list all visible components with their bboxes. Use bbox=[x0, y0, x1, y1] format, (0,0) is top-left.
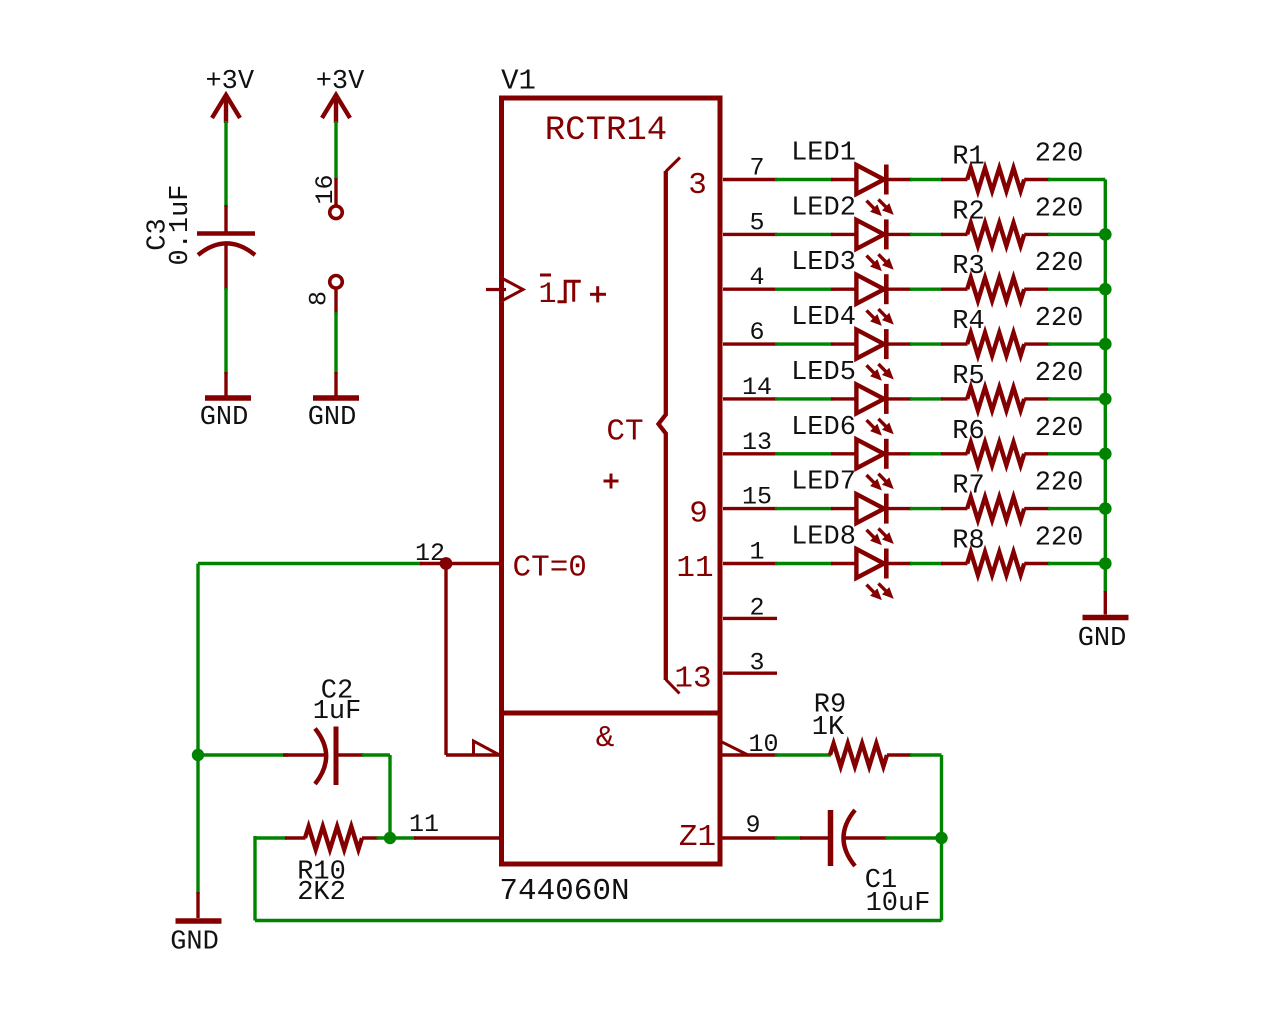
svg-text:LED1: LED1 bbox=[791, 139, 856, 169]
svg-text:16: 16 bbox=[311, 174, 340, 204]
svg-text:1: 1 bbox=[749, 538, 764, 567]
svg-text:+3V: +3V bbox=[205, 67, 254, 97]
svg-text:LED5: LED5 bbox=[791, 358, 856, 388]
resistor R3 bbox=[967, 278, 1024, 301]
svg-text:&: & bbox=[596, 721, 615, 756]
IC output pin 15 bbox=[723, 507, 777, 510]
LED LED2 bbox=[856, 220, 884, 249]
wire R2 to GND bus bbox=[1048, 233, 1105, 236]
svg-text:R6: R6 bbox=[952, 417, 984, 447]
wire LED2 to R2 bbox=[910, 233, 943, 236]
svg-text:0.1uF: 0.1uF bbox=[166, 184, 196, 265]
ground GND (pin 8) bbox=[334, 372, 337, 396]
svg-text:LED7: LED7 bbox=[791, 468, 856, 498]
IC gate unit body bbox=[502, 713, 721, 864]
junction at C2 left bbox=[192, 749, 204, 761]
junction at R4/GND bus bbox=[1099, 338, 1112, 351]
svg-text:3: 3 bbox=[688, 168, 707, 203]
LED LED3 anode pin bbox=[831, 288, 857, 291]
resistor R3 right pin bbox=[1024, 288, 1050, 291]
capacitor C3 bottom pin bbox=[224, 244, 227, 291]
svg-text:CT=0: CT=0 bbox=[513, 551, 587, 586]
resistor R6 right pin bbox=[1024, 452, 1050, 455]
junction at pin 12 node bbox=[440, 557, 453, 570]
junction at R2/GND bus bbox=[1099, 228, 1112, 241]
capacitor C2 left pin bbox=[283, 753, 327, 756]
LED LED1 bbox=[856, 165, 884, 194]
capacitor C2 bbox=[315, 729, 326, 785]
resistor R8 bbox=[967, 552, 1024, 575]
svg-text:10: 10 bbox=[748, 730, 778, 759]
IC output pin 5 bbox=[723, 233, 777, 236]
wire LED6 to R6 bbox=[910, 452, 943, 455]
resistor R2 right pin bbox=[1024, 233, 1050, 236]
IC output pin 1 bbox=[723, 562, 777, 565]
output group bracket CT bbox=[659, 171, 666, 680]
clock function label 1-bar pulse + bbox=[540, 274, 551, 277]
wire R6 to GND bus bbox=[1048, 452, 1105, 455]
wire pin 14 to LED5 bbox=[775, 397, 833, 400]
svg-text:7: 7 bbox=[749, 154, 764, 183]
capacitor C3 top pin bbox=[224, 205, 227, 232]
svg-text:R5: R5 bbox=[952, 362, 984, 392]
svg-text:+3V: +3V bbox=[316, 67, 365, 97]
resistor R10 left pin bbox=[285, 836, 306, 839]
resistor R7 right pin bbox=[1024, 507, 1050, 510]
LED LED2 anode pin bbox=[831, 233, 857, 236]
IC output pin 14 bbox=[723, 397, 777, 400]
wire +3V to C3 bbox=[224, 121, 227, 207]
resistor R2 bbox=[967, 223, 1024, 246]
svg-text:2: 2 bbox=[749, 594, 764, 623]
svg-text:1K: 1K bbox=[812, 713, 845, 743]
svg-text:4: 4 bbox=[749, 263, 764, 292]
LED LED6 anode pin bbox=[831, 452, 857, 455]
LED LED7 cathode pin bbox=[888, 507, 912, 510]
ground GND (bottom left) bbox=[196, 892, 199, 918]
capacitor C1 bbox=[828, 810, 834, 866]
wire R4 to GND bus bbox=[1048, 342, 1105, 345]
wire LED5 to R5 bbox=[910, 397, 943, 400]
resistor R4 right pin bbox=[1024, 342, 1050, 345]
pin 12 of IC bbox=[420, 562, 501, 565]
IC output pin 13 bbox=[723, 452, 777, 455]
svg-text:220: 220 bbox=[1035, 249, 1084, 279]
LED LED1 cathode pin bbox=[888, 178, 912, 181]
svg-text:LED6: LED6 bbox=[791, 413, 856, 443]
wire R7 to GND bus bbox=[1048, 507, 1105, 510]
resistor R10 bbox=[305, 827, 362, 850]
capacitor C3 bbox=[197, 231, 255, 236]
LED LED3 cathode pin bbox=[888, 288, 912, 291]
svg-text:220: 220 bbox=[1035, 469, 1084, 499]
svg-text:GND: GND bbox=[1078, 624, 1127, 654]
wire R8 to GND bus bbox=[1048, 562, 1105, 565]
svg-text:1: 1 bbox=[538, 278, 556, 312]
junction at R10 right / C2 bbox=[384, 832, 396, 844]
svg-text:13: 13 bbox=[742, 428, 772, 457]
resistor R5 right pin bbox=[1024, 397, 1050, 400]
LED LED8 cathode pin bbox=[888, 562, 912, 565]
wire pin 9 to C1 bbox=[775, 836, 802, 839]
IC output pin 7 bbox=[723, 178, 777, 181]
svg-text:GND: GND bbox=[200, 403, 249, 433]
LED LED4 cathode pin bbox=[888, 342, 912, 345]
svg-text:220: 220 bbox=[1035, 359, 1084, 389]
svg-text:3: 3 bbox=[749, 649, 764, 678]
wire R1 to GND bus bbox=[1048, 178, 1105, 181]
wire R10 left down bbox=[253, 836, 256, 921]
IC power pin 16 (VCC) bbox=[334, 178, 337, 206]
IC power pin 8 (GND) bbox=[330, 276, 343, 289]
svg-text:220: 220 bbox=[1035, 414, 1084, 444]
resistor R9 bbox=[830, 744, 887, 767]
IC output pin 6 bbox=[723, 342, 777, 345]
resistor R10 right pin bbox=[362, 836, 379, 839]
svg-text:744060N: 744060N bbox=[499, 874, 629, 909]
resistor R5 bbox=[967, 387, 1024, 410]
LED LED2 cathode pin bbox=[888, 233, 912, 236]
svg-text:CT: CT bbox=[606, 415, 643, 450]
resistor R4 left pin bbox=[941, 342, 968, 345]
gate input edge symbol (pin 11 side) bbox=[474, 741, 500, 755]
capacitor C2 right pin bbox=[336, 753, 364, 756]
svg-text:R8: R8 bbox=[952, 527, 984, 557]
IC output pin 3 bbox=[723, 672, 777, 675]
IC pin 11 bbox=[414, 836, 501, 839]
svg-text:Z1: Z1 bbox=[679, 820, 716, 855]
IC pin 9 bbox=[720, 836, 777, 839]
svg-text:9: 9 bbox=[689, 497, 708, 532]
junction at R3/GND bus bbox=[1099, 283, 1112, 296]
LED LED3 bbox=[856, 275, 884, 304]
wire R10 to pin 11 bbox=[377, 836, 417, 839]
resistor R8 right pin bbox=[1024, 562, 1050, 565]
wire pin 10 to R9 bbox=[775, 753, 831, 756]
wire pin 1 to LED8 bbox=[775, 562, 833, 565]
resistor R7 bbox=[967, 497, 1024, 520]
gate output edge symbol (pin 10 side) bbox=[720, 741, 748, 755]
svg-text:RCTR14: RCTR14 bbox=[545, 112, 667, 150]
wire pin 13 to LED6 bbox=[775, 452, 833, 455]
wire C1 to node bbox=[885, 836, 942, 839]
ground GND (C3) bbox=[224, 372, 227, 396]
capacitor C1 left pin bbox=[800, 836, 831, 839]
wire +3V to pin 16 bbox=[334, 121, 337, 180]
svg-text:2K2: 2K2 bbox=[297, 878, 346, 908]
wire LED7 to R7 bbox=[910, 507, 943, 510]
LED LED8 bbox=[856, 549, 884, 578]
wire pin 6 to LED4 bbox=[775, 342, 833, 345]
wire bottom long bbox=[255, 919, 942, 922]
svg-text:LED3: LED3 bbox=[791, 248, 856, 278]
IC U/V1 744060N main unit body bbox=[502, 98, 721, 713]
resistor R9 right pin bbox=[887, 753, 912, 756]
resistor R8 left pin bbox=[941, 562, 968, 565]
resistor R1 right pin bbox=[1024, 178, 1050, 181]
svg-text:15: 15 bbox=[742, 483, 772, 512]
svg-text:9: 9 bbox=[745, 811, 760, 840]
wire pin 15 to LED7 bbox=[775, 507, 833, 510]
LED LED4 bbox=[856, 330, 884, 359]
svg-text:13: 13 bbox=[674, 662, 711, 697]
resistor R6 bbox=[967, 442, 1024, 465]
wire R5 to GND bus bbox=[1048, 397, 1105, 400]
IC output pin 2 bbox=[723, 617, 777, 620]
junction at R8/GND bus bbox=[1099, 557, 1112, 570]
wire LED3 to R3 bbox=[910, 288, 943, 291]
svg-text:11: 11 bbox=[676, 551, 713, 586]
svg-text:LED8: LED8 bbox=[791, 523, 856, 553]
svg-text:LED2: LED2 bbox=[791, 193, 856, 223]
resistor R5 left pin bbox=[941, 397, 968, 400]
LED LED6 bbox=[856, 439, 884, 468]
wire C3 to GND bbox=[224, 288, 227, 374]
svg-text:LED4: LED4 bbox=[791, 303, 856, 333]
svg-text:R4: R4 bbox=[952, 307, 984, 337]
resistor R7 left pin bbox=[941, 507, 968, 510]
capacitor C1 right pin bbox=[844, 836, 888, 839]
svg-text:14: 14 bbox=[742, 373, 772, 402]
LED LED7 anode pin bbox=[831, 507, 857, 510]
svg-text:V1: V1 bbox=[501, 65, 536, 98]
svg-text:5: 5 bbox=[749, 208, 764, 237]
LED LED7 bbox=[856, 494, 884, 523]
resistor R6 left pin bbox=[941, 452, 968, 455]
wire pin 5 to LED2 bbox=[775, 233, 833, 236]
LED LED1 anode pin bbox=[831, 178, 857, 181]
label + (count up) bbox=[604, 480, 619, 483]
svg-text:R1: R1 bbox=[952, 143, 984, 173]
svg-text:8: 8 bbox=[305, 291, 334, 306]
svg-text:220: 220 bbox=[1035, 140, 1084, 170]
svg-text:11: 11 bbox=[409, 810, 439, 839]
svg-text:R2: R2 bbox=[952, 197, 984, 227]
IC pin 10 bbox=[720, 753, 777, 756]
wire R3 to GND bus bbox=[1048, 288, 1105, 291]
svg-text:GND: GND bbox=[170, 928, 219, 958]
LED LED6 cathode pin bbox=[888, 452, 912, 455]
wire R9 to C1 node bbox=[910, 753, 942, 756]
svg-text:220: 220 bbox=[1035, 524, 1084, 554]
wire to C2 left bbox=[198, 753, 288, 756]
wire pin 12 net left vertical bbox=[196, 564, 199, 895]
wire pin12 node down to gate input bbox=[444, 564, 447, 756]
wire pin 8 to GND bbox=[334, 312, 337, 374]
wire node down to bottom wire bbox=[940, 838, 943, 921]
svg-text:220: 220 bbox=[1035, 194, 1084, 224]
LED LED5 bbox=[856, 384, 884, 413]
junction at C1 right bbox=[935, 832, 947, 844]
IC output pin 4 bbox=[723, 288, 777, 291]
svg-text:1uF: 1uF bbox=[313, 697, 362, 727]
wire pin 12 horizontal bbox=[198, 562, 422, 565]
svg-text:GND: GND bbox=[308, 403, 357, 433]
wire pin 7 to LED1 bbox=[775, 178, 833, 181]
svg-text:6: 6 bbox=[749, 318, 764, 347]
resistor R3 left pin bbox=[941, 288, 968, 291]
GND bus vertical wire bbox=[1104, 180, 1107, 593]
LED LED5 anode pin bbox=[831, 397, 857, 400]
clock input pin arrow bbox=[486, 288, 506, 291]
svg-text:R7: R7 bbox=[952, 472, 984, 502]
resistor R2 left pin bbox=[941, 233, 968, 236]
wire C2 right to R10 node bbox=[362, 753, 390, 756]
wire pin 4 to LED3 bbox=[775, 288, 833, 291]
junction at R5/GND bus bbox=[1099, 393, 1112, 406]
wire LED8 to R8 bbox=[910, 562, 943, 565]
resistor R1 bbox=[967, 168, 1024, 191]
ground GND (LED bus) bbox=[1104, 591, 1107, 615]
LED LED8 anode pin bbox=[831, 562, 857, 565]
resistor R4 bbox=[967, 333, 1024, 356]
junction at R6/GND bus bbox=[1099, 448, 1112, 461]
svg-text:10uF: 10uF bbox=[866, 889, 931, 919]
svg-text:R3: R3 bbox=[952, 252, 984, 282]
resistor R1 left pin bbox=[941, 178, 968, 181]
LED LED4 anode pin bbox=[831, 342, 857, 345]
LED LED5 cathode pin bbox=[888, 397, 912, 400]
junction at R7/GND bus bbox=[1099, 502, 1112, 515]
wire R10 left corner bbox=[255, 836, 287, 839]
wire LED4 to R4 bbox=[910, 342, 943, 345]
svg-text:220: 220 bbox=[1035, 304, 1084, 334]
wire LED1 to R1 bbox=[910, 178, 943, 181]
